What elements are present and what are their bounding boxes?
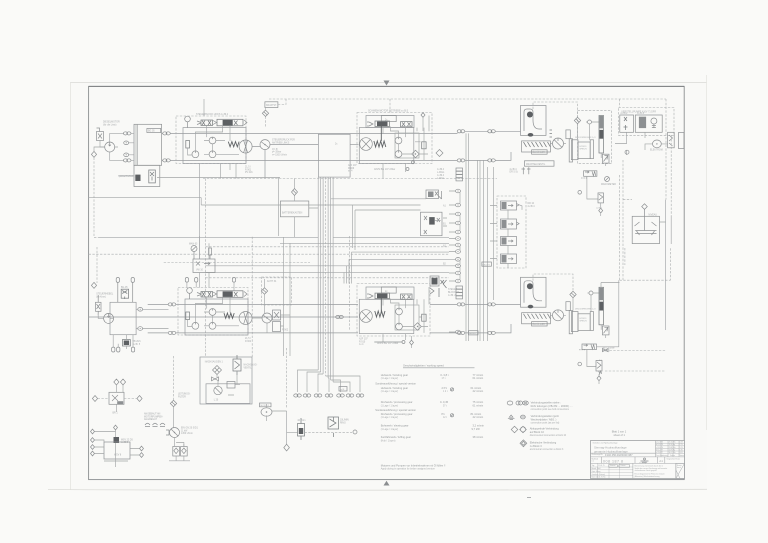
tank TC2 breather dark [527,283,533,289]
valve cluster VC1 [426,190,442,199]
svg-text:MOTORPUMPEN-: MOTORPUMPEN- [144,416,163,418]
gauge oval GV1 [261,408,272,416]
fuel filter FF1 [262,110,268,116]
mini valve MV2 [596,361,602,372]
coupling K12 [457,331,465,334]
spool rect S3 [186,312,190,320]
brake valve drop line 2 [380,298,382,314]
valve cluster VC2 [421,212,448,236]
dashed drain wire [94,158,99,283]
bundle fan to ports [298,370,361,392]
VP port circle [625,150,629,154]
fixture W2 wires [95,430,140,467]
wire right risers [597,216,672,347]
port stub wires [449,191,460,332]
breather circle BC2 [589,291,593,295]
svg-text:STEUERHEBEL: STEUERHEBEL [96,294,114,296]
svg-text:BG.05: BG.05 [121,287,128,289]
svg-text:(1.Lage / 1.layer): (1.Lage / 1.layer) [381,377,399,380]
svg-text:disconnected connection a b: disconnected connection a block 10 [530,434,567,437]
svg-text:Bohrwerk / slewing gear: Bohrwerk / slewing gear [381,424,409,428]
main valve V2 [213,119,247,126]
spring valve SV1 [584,171,597,177]
valve rect VR1 [566,130,570,139]
fuel valve F1 [149,170,156,183]
svg-text:VW 10: VW 10 [196,270,204,272]
svg-text:ÖLKÜHLER: ÖLKÜHLER [532,151,545,154]
svg-text:57 t: 57 t [443,404,447,407]
svg-text:(KRAFTSTOFF): (KRAFTSTOFF) [119,175,136,178]
W6 wires [169,438,190,461]
fuel unit box under tank [134,165,160,186]
wire float right [660,200,666,244]
bowtie valve BT2 [603,349,609,352]
scale cell [592,457,599,462]
W1 top diamonds [114,379,126,392]
svg-text:(1.Lage / 1.layer): (1.Lage / 1.layer) [381,404,399,407]
svg-text:Hubwerk / hoisting gear: Hubwerk / hoisting gear [381,373,408,377]
svg-text:Sonderausführung / special ve: Sonderausführung / special version [375,408,416,412]
wire into tank TC2 [495,304,520,333]
svg-text:BR 1: BR 1 [113,412,119,414]
datum table lines [591,463,633,478]
diamond DD1 [436,150,443,157]
coupling K11 [457,303,465,306]
valve V8 [401,294,412,299]
svg-text:e 20.6.77: e 20.6.77 [656,452,663,454]
coupling K15 on line [336,315,344,318]
wire pump P1 ports [100,133,124,160]
svg-text:Getriebe und Hydraulikanlage: Getriebe und Hydraulikanlage [593,441,618,444]
tank T1 header label [147,129,161,133]
svg-text:BATTERIEKASTEN: BATTERIEKASTEN [282,212,303,215]
wires cooler2 top [533,274,573,291]
spool rect S1 [186,141,190,149]
coupling K3 [163,132,171,135]
filter FD5 [170,400,176,406]
valve block VB1 inner frame [183,128,246,164]
fixture W1 inner mark [112,395,118,401]
bottom stubs [112,335,135,352]
NG inner rect [227,382,240,389]
svg-text:R 909: R 909 [348,168,355,170]
svg-text:zu 4: zu 4 [348,171,353,173]
svg-text:A2F 107: A2F 107 [359,338,368,341]
svg-text:MSV 22 D5: MSV 22 D5 [121,439,133,441]
fixture W2 box [104,442,130,459]
svg-text:ACHT 34: ACHT 34 [267,280,277,283]
wire down riser [587,176,598,199]
tank T1 ports [124,141,129,145]
drain diamond P12 [414,323,422,331]
bottom ports label box [339,387,347,392]
cooler HX1 [522,141,551,152]
left riser pair [284,237,291,356]
bundle dashed [326,177,350,376]
coil spring dark 2 [224,313,234,318]
thin rect TR2 [590,312,593,331]
MB2 internal wires [383,287,429,342]
filter FD2 [574,117,580,123]
svg-text:0- 3,8 t: 0- 3,8 t [440,373,448,377]
BV1 end circle [353,430,357,434]
VP wires [615,132,668,155]
svg-text:STEUER-: STEUER- [448,289,458,291]
svg-text:NACHSAUGEN 1: NACHSAUGEN 1 [205,361,224,364]
coupling K4 [163,159,171,162]
svg-text:R 902: R 902 [245,341,252,343]
svg-text:ELEKTROM.: ELEKTROM. [650,149,664,151]
lower stub wires VB1 [200,164,236,260]
brake valve V3 dark [367,121,390,127]
svg-text:n= 1500 U/min: n= 1500 U/min [272,154,288,156]
wsv marks [522,167,531,174]
svg-text:Drehwerk / processing gear: Drehwerk / processing gear [381,400,413,404]
valve block VB2 dashed enclosure [178,288,248,336]
drain diamond D1 [91,151,96,157]
coil spring dark [228,142,239,147]
svg-text:Apply during in operation f: Apply during in operation for before ass… [381,468,436,471]
svg-text:R 910: R 910 [359,341,366,343]
svg-text:durch: durch [677,467,681,469]
port labels [443,205,447,284]
svg-text:21,5 l: 21,5 l [245,338,251,340]
terminal stack TS2 [456,286,463,299]
main line B [162,159,458,161]
svg-text:R 901: R 901 [245,169,252,171]
svg-text:A2F 107: A2F 107 [348,164,357,167]
svg-text:MANOMETER: MANOMETER [601,183,616,186]
pilot pump PP10 [396,308,403,315]
VP valve box B [635,115,662,132]
svg-text:1:1: 1:1 [592,461,594,463]
svg-text:sheet of 1: sheet of 1 [614,433,626,437]
main pump MP2 [239,312,252,325]
svg-text:Sonderausführung / special ve: Sonderausführung / special version [375,382,416,386]
title block h lines [591,453,685,463]
pressure valve PV3 [602,326,609,335]
wire into tank TC1 [495,131,520,160]
svg-text:BG 05: BG 05 [148,131,155,133]
hand valve HV1 [96,295,102,315]
speeds row1 [381,373,484,380]
svg-text:38 m/min: 38 m/min [473,435,484,439]
dark valve DV2 [123,335,131,349]
fuel filter label box [265,102,278,108]
fan FAN2 [553,310,564,321]
speicher box SB5 [578,314,590,331]
acht dashed box [262,277,292,305]
drawing number row [592,453,634,457]
brake coil dark 2 [375,311,385,317]
svg-text:VENTIL: VENTIL [244,367,253,369]
projection symbol [639,458,649,464]
blatt sheet text [612,429,627,436]
pilot pump PP3 [209,151,216,158]
pressure valve PV1 [602,154,609,163]
coupling K6 [457,159,465,162]
verstellpumpe VP enclosure [619,108,675,136]
P5 side mark [166,430,169,435]
dashed fuel wire [265,108,267,128]
svg-text:zu Bl.4: zu Bl.4 [437,169,445,171]
svg-text:zu 4: zu 4 [359,344,364,346]
float box FB [632,209,659,243]
svg-text:MAN 63: MAN 63 [189,243,198,246]
fixture W1 box [109,392,124,404]
svg-text:30.1. Wä: 30.1. Wä [669,452,676,454]
pilot pump PP4 [395,137,402,144]
svg-text:Elektrische Verbindung: Elektrische Verbindung [530,440,557,444]
datum table [592,464,627,479]
terminal stub TA2 [131,278,134,303]
spool rect S2 [422,142,426,149]
hydraulic motor M1 [360,138,373,151]
stack valve SV-A [501,201,523,210]
breather circle BC1 [588,120,592,124]
svg-text:ANTRIEB LINKS: ANTRIEB LINKS [272,141,290,144]
brake coil dark [374,141,386,147]
accumulator column AC2 [569,311,572,334]
pilot valve PV2 [121,289,128,299]
svg-text:WECHSELVENTIL: WECHSELVENTIL [526,164,546,166]
cylinder CY1 [571,140,578,160]
fixture W1 diamond right [137,396,142,402]
wire to cooler group [465,131,489,160]
fixture W2 diamonds left [91,429,95,456]
svg-text:KRAFTST.: KRAFTST. [266,104,277,107]
svg-text:auf Block 10: auf Block 10 [530,430,545,434]
side wires [267,315,290,333]
svg-text:Verbindungsstellen (jetzt: Verbindungsstellen (jetzt [531,414,560,418]
wire accumulator down [601,153,606,166]
svg-text:vorhandenem Gerät geprüft: vorhandenem Gerät geprüft [635,469,658,472]
central bus verticals [466,133,494,341]
small valve BV2 [328,417,339,437]
valve W6a [173,447,180,457]
fuel pump dark block [135,175,140,181]
coupling K8 [488,159,496,162]
drain diamond D7 [597,376,601,381]
pilot pump PP9 [209,322,216,329]
coupling K9 [168,303,176,306]
thin rect TR1 [590,140,593,159]
bundle verticals [318,177,333,382]
legend row4 text [530,440,564,450]
svg-text:(Alteration) Werkstattzeichnu: (Alteration) Werkstattzeichnung [635,475,660,478]
side box SB4 [273,322,289,332]
mini valve MV1 [598,193,604,203]
wire riser2 [587,350,596,367]
svg-text:connection point see bolt: connection point see bolt connections [531,408,570,411]
clamp symbols [145,423,165,426]
svg-text:zu Block 3: zu Block 3 [530,444,543,448]
svg-text:Zust. Änderung: Zust. Änderung [656,454,668,457]
hydraulic motor M3 [360,310,373,323]
legend row3 symbols [511,426,526,433]
port circle PC1 [578,191,582,195]
svg-text:connection point (as per l: connection point (as per list) [531,421,560,424]
stack valve SV-D [501,254,517,264]
oil tank TC1 [521,106,547,136]
port row column [456,189,461,334]
pump P3 [98,313,113,323]
legend row4 symbol [520,440,527,447]
drain diamond P6 [412,150,420,158]
fixture W2 diamonds right [140,446,144,457]
svg-text:zu Bl.4: zu Bl.4 [437,175,445,177]
pilot pump PP11 [396,323,403,330]
svg-text:gesamte Hydraulikanlage: gesamte Hydraulikanlage [594,449,628,453]
svg-text:Hubwerk / hoisting gear: Hubwerk / hoisting gear [381,386,408,390]
svg-text:L-MAG: L-MAG [437,171,444,174]
svg-text:11 kW: 11 kW [181,430,188,432]
tank TC1 drain dark [528,133,534,137]
port circle PC2 [578,362,582,366]
long line L233 [99,236,449,238]
pilot valve V1 [197,120,213,126]
coupling K10 [168,331,176,334]
revision grid entries [656,442,684,458]
brake valve V7 dark [367,293,390,299]
MB2 top box [366,287,414,299]
cooler label box [532,150,548,154]
svg-text:L-MAG: L-MAG [437,177,444,180]
speeds row2 [375,382,483,394]
stack wires [490,206,508,269]
dashed riser to float [623,135,671,280]
main line A [162,132,458,134]
stack valve SV-B [501,219,520,229]
NG wires [217,371,237,395]
MB2 2x label box [381,287,396,293]
FD3 wires [252,279,264,318]
gauge circle G3 [191,246,197,260]
svg-text:L 20: L 20 [214,399,219,401]
valve V4 [401,122,412,127]
svg-text:Norm 26.01.75 Hu: Norm 26.01.75 Hu [592,476,606,479]
cylinder CY2 [571,312,578,332]
drain diamond D8 [284,444,290,451]
svg-text:DR 10: DR 10 [528,203,535,205]
brake valve drop line [380,125,382,141]
svg-text:Motoren und Pumpen vor Inb: Motoren und Pumpen vor Inbetriebnahme mi… [381,464,446,468]
svg-text:42 m/min: 42 m/min [473,389,484,393]
MV2 spring [599,371,602,374]
speeds table heading [403,363,475,367]
svg-text:Blatt 1 von 1: Blatt 1 von 1 [612,429,627,433]
svg-text:R 902: R 902 [282,330,289,332]
pilot pump PP7 [192,322,199,329]
svg-text:VB 20/1: VB 20/1 [133,341,142,343]
NG diamond [213,366,222,375]
tank TC1 breather dark [527,112,533,118]
legend row2 symbols [508,415,525,419]
svg-text:STEUERDRUCK FÜR: STEUERDRUCK FÜR [272,139,295,142]
accumulator ACC2 [599,287,604,325]
svg-text:zu Bl.4: zu Bl.4 [510,169,518,171]
svg-text:zu Bl. 2: zu Bl. 2 [448,295,456,297]
small symbol SY1 [209,248,212,259]
svg-text:21,5 l: 21,5 l [245,167,251,169]
svg-text:Geschwindigkeiten / working: Geschwindigkeiten / working speed [403,363,444,367]
pump P5 [170,428,180,438]
svg-text:3.81: 3.81 [679,452,682,454]
svg-text:(im Kran): (im Kran) [96,295,106,298]
fixture W1 wires [98,398,137,400]
NG bowtie valve [212,377,219,381]
svg-text:Zeichnung: Zeichnung [639,462,646,464]
svg-text:MOTOR 2: MOTOR 2 [261,405,270,407]
terminal stack TS1 [456,168,463,181]
svg-text:PV 016: PV 016 [245,172,253,174]
GV1 wires [267,404,298,444]
svg-text:AGGREGAT: AGGREGAT [144,418,157,421]
svg-text:DIESELMOTOR: DIESELMOTOR [103,122,120,124]
ersatz x-box [676,463,685,478]
pilot pump PP5 [395,151,402,158]
motor block MB2 inner frame [359,299,414,333]
wires cooler top [533,102,578,117]
stack valve SV-C [501,237,517,246]
svg-text:17 t: 17 t [442,377,446,380]
drain diamond D5 [91,282,96,288]
side box SB3 [273,310,281,320]
dashed enclosure right [620,175,671,280]
dots mark [581,177,586,179]
station ports right [138,308,143,312]
GV1 label box [260,403,272,407]
svg-text:1450 U/min: 1450 U/min [181,433,193,435]
fixture W2 top diamond [114,425,118,430]
svg-text:DRUCKSPEICHER 1,4 l: DRUCKSPEICHER 1,4 l [575,309,596,311]
svg-text:008 187 8: 008 187 8 [603,459,624,463]
svg-text:and internal connection a: and internal connection a block 3 [530,448,564,451]
legend row2 text [531,414,560,424]
filter FD1 on riser [292,189,298,196]
filter FD4 [570,291,576,297]
svg-text:Rohr leitungen (VB-XM ... 200: Rohr leitungen (VB-XM ... 20000) .... [531,404,573,408]
svg-text:FILTER: FILTER [178,396,186,398]
wire acc2 down [601,325,606,338]
right info text [635,464,668,477]
top distribution wire [269,99,666,200]
svg-text:61 m/min: 61 m/min [473,376,484,380]
valve W6b [181,444,188,456]
svg-text:Wechselplatte / ABS. ): Wechselplatte / ABS. ) [531,417,557,421]
legend row3 text [530,427,567,437]
svg-text:Katzfahrwerk / luffing gear: Katzfahrwerk / luffing gear [381,435,411,439]
spool rect S4 [422,314,426,321]
datum boxes [609,465,618,468]
svg-text:A6VM BG 107 23bar: A6VM BG 107 23bar [377,342,398,345]
gauge G2 [187,288,193,299]
wsv label box [525,161,555,166]
small valve BV1 [298,418,305,440]
NG inner box [206,384,250,404]
svg-text:Abkuppelnde Verbindung: Abkuppelnde Verbindung [530,427,560,431]
pilot pump PP1 [192,151,199,158]
BV1 dashed wire [305,432,353,434]
VP valve box A [620,115,634,132]
gauge GC1 [605,177,610,182]
svg-text:BELÜFT: BELÜFT [469,332,477,335]
oval stub TB2 [195,278,198,288]
cooler HX2 [522,313,551,324]
speeds row3 [381,400,484,407]
gearbox rect R1 [318,134,350,177]
valve cluster VC3 [430,276,447,297]
